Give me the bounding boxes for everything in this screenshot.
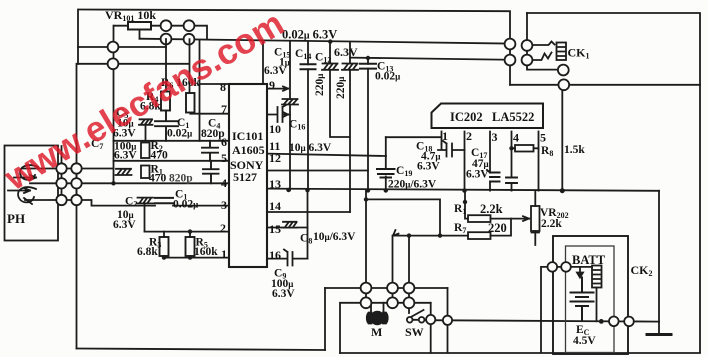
wire vertical x113 pot-left feed [113, 26, 115, 184]
capacitor C15 column / C10 riser x290 [289, 41, 291, 190]
svg-text:A1605: A1605 [232, 143, 265, 157]
resistor R1b [141, 166, 150, 179]
wire x366 column to motor row [365, 191, 367, 303]
svg-text:470: 470 [151, 150, 169, 162]
capacitor C14 plates [301, 64, 316, 69]
svg-text:0.02μ: 0.02μ [173, 199, 198, 211]
svg-text:1: 1 [221, 247, 227, 261]
wire node row y63.8 [78, 63, 189, 65]
wire CK1 node column x527 [527, 13, 563, 70]
wire rail B (VR wiper net) [140, 39, 511, 44]
svg-text:13: 13 [269, 177, 281, 191]
svg-text:M: M [371, 325, 382, 339]
node grid circles [56, 163, 81, 205]
resistor R1 [465, 191, 529, 222]
svg-text:2: 2 [466, 129, 472, 143]
capacitor pin4 bypass plates [506, 178, 517, 184]
svg-text:SW: SW [405, 325, 424, 339]
svg-text:4: 4 [513, 131, 519, 145]
capacitor C10 hatched symbol [282, 99, 298, 105]
wire pin1 line IC202 [386, 132, 442, 145]
svg-text:1.5k: 1.5k [564, 144, 585, 156]
svg-text:2.2k: 2.2k [480, 202, 503, 216]
svg-text:PH: PH [7, 211, 25, 226]
wire ground drop x659 [658, 191, 660, 334]
svg-text:4.5V: 4.5V [573, 335, 596, 347]
svg-text:6: 6 [221, 135, 227, 149]
wire SW drop x430 [430, 303, 432, 353]
IC202 body [432, 104, 544, 129]
capacitor C13 plates [360, 64, 376, 69]
wire CK1 ring contact hook lower [531, 53, 552, 61]
wire CK1 tip contact hook upper [531, 42, 555, 46]
svg-text:220μ/6.3V: 220μ/6.3V [388, 179, 437, 191]
wire bottom rail left [77, 349, 326, 351]
svg-text:8: 8 [220, 80, 226, 94]
svg-text:6.3V: 6.3V [272, 288, 295, 300]
resistor R2 [141, 143, 150, 159]
capacitor C4 plates [202, 141, 218, 161]
svg-text:6.3V: 6.3V [113, 219, 136, 231]
svg-text:C2: C2 [125, 196, 137, 209]
svg-text:0.02μ 6.3V: 0.02μ 6.3V [282, 28, 337, 42]
svg-text:10μ/6.3V: 10μ/6.3V [313, 231, 356, 243]
wire 100u box mid line pin5 [114, 160, 230, 162]
node CK1 circles [505, 39, 570, 91]
capacitor C1low plates [155, 198, 173, 203]
capacitor C3 hatched symbol [139, 119, 153, 141]
svg-text:14: 14 [269, 199, 281, 213]
capacitor C1 plates [155, 111, 178, 141]
node VR net circles [108, 20, 195, 69]
capacitor C11 column [349, 42, 351, 212]
jack CK1 body [557, 43, 567, 61]
wire pin9 lead with arrow [267, 86, 288, 90]
resistor R4 [161, 92, 170, 111]
wire rail C [350, 58, 510, 60]
svg-text:220: 220 [488, 221, 507, 235]
svg-text:5: 5 [221, 151, 227, 165]
svg-text:820p: 820p [169, 173, 193, 185]
svg-text:1: 1 [442, 129, 448, 143]
svg-text:5127: 5127 [233, 170, 257, 184]
battery inner box [566, 246, 615, 353]
svg-text:220μ: 220μ [335, 77, 347, 99]
jack PH box [5, 146, 59, 241]
svg-text:0.02μ: 0.02μ [375, 71, 400, 83]
wire R4 top lead [165, 39, 167, 92]
svg-text:6.3V: 6.3V [466, 169, 489, 181]
capacitor C19 column [385, 137, 387, 190]
wire node row y47 [78, 46, 166, 48]
svg-text:C12: C12 [315, 52, 331, 65]
wire top rail A [79, 10, 510, 41]
wire battery feed y266.9 [541, 267, 592, 353]
capacitor C14 column [307, 41, 309, 190]
battery plus contact arrow [577, 267, 583, 278]
svg-text:10μ 6.3V: 10μ 6.3V [289, 142, 332, 154]
svg-text:6.3V: 6.3V [417, 161, 440, 173]
svg-text:7: 7 [221, 102, 227, 116]
capacitor C13 column [367, 58, 369, 190]
wire bottom rail right [340, 352, 700, 354]
capacitor C20 symbol [487, 170, 500, 182]
wire lower mid vertical x325 [324, 288, 326, 350]
watermark www.elecfans.com [0, 3, 291, 199]
svg-text:6.3V: 6.3V [114, 150, 137, 162]
svg-text:10: 10 [269, 122, 281, 136]
capacitor C5 plates [203, 161, 219, 184]
capacitor C18 series [438, 141, 465, 157]
svg-text:2.2k: 2.2k [541, 218, 562, 230]
node battery circles [548, 262, 634, 326]
resistor R7 [393, 219, 511, 239]
wire pin2 column IC202 [464, 132, 466, 191]
svg-text:CK1: CK1 [568, 46, 590, 61]
svg-text:15: 15 [269, 222, 281, 236]
wire motor branch x392 [392, 236, 394, 303]
wire pin12 line [267, 170, 368, 172]
svg-text:C19: C19 [396, 165, 412, 178]
IC101 body [229, 84, 267, 267]
svg-text:16: 16 [269, 248, 281, 262]
svg-text:470: 470 [149, 173, 167, 185]
resistor R5 [186, 232, 195, 258]
svg-text:R7: R7 [454, 222, 466, 235]
svg-text:220μ: 220μ [314, 74, 326, 96]
wire pin2 line [145, 231, 230, 233]
svg-text:C8: C8 [300, 233, 312, 246]
capacitor C16 in pin10 lead [267, 105, 290, 122]
wire pin15 riser x307 [307, 191, 309, 259]
svg-text:6.3V: 6.3V [334, 45, 358, 59]
wire lower box row y302.8 [340, 303, 431, 353]
wire lower mid row y288 [325, 287, 448, 289]
battery Ec cells [571, 278, 594, 322]
svg-text:12: 12 [269, 151, 281, 165]
switch SW [409, 310, 424, 320]
wire pin5 column IC202 [538, 132, 540, 191]
svg-text:R8: R8 [541, 145, 553, 158]
jack BATT contact [592, 266, 602, 322]
capacitor C7 hatched symbol [116, 169, 132, 175]
svg-text:6.3V: 6.3V [264, 65, 287, 77]
wire switch branch x409 [408, 236, 410, 313]
capacitor C11 hatched symbol [342, 64, 358, 70]
wire C15 left riser [262, 41, 264, 84]
motor M leads [371, 303, 384, 312]
potentiometer VR202 [531, 191, 540, 245]
wire R6 top lead [189, 39, 191, 93]
wire CK1 sleeve vertical x562 [561, 85, 563, 191]
jack PH plug contacts [14, 165, 38, 180]
wire pin14 line [267, 211, 350, 213]
svg-text:4: 4 [221, 176, 227, 190]
svg-text:CK2: CK2 [631, 263, 653, 278]
potentiometer VR101 [114, 22, 207, 39]
svg-text:IC101: IC101 [232, 129, 263, 143]
wire battery feed row y320 [424, 320, 659, 321]
node circles lower grid [361, 283, 453, 325]
resistor R8 [512, 145, 539, 152]
wire node grid columns [62, 146, 77, 205]
wire CK1 lower rail y84.8 [510, 84, 700, 86]
svg-text:0.02μ: 0.02μ [167, 128, 192, 140]
svg-text:C16: C16 [289, 119, 305, 132]
svg-text:3: 3 [492, 130, 498, 144]
wire node grid rows [22, 169, 229, 206]
resistor R3 [160, 232, 169, 258]
capacitor C8 hatched at pin15 [267, 222, 308, 228]
svg-text:5: 5 [540, 131, 546, 145]
wire left vertical rail from VR box [77, 10, 79, 349]
wire 100u box top line pin6 [114, 140, 230, 142]
wire pin8 riser [200, 40, 230, 141]
wire x447 drop [447, 288, 449, 353]
svg-text:3: 3 [221, 198, 227, 212]
wire pin11 line [267, 154, 386, 156]
capacitor C9 at pin16 [267, 250, 308, 266]
capacitor C12 hatched symbol [322, 64, 338, 70]
svg-text:BATT: BATT [572, 253, 606, 267]
wire main ground rail y190 [267, 189, 659, 191]
capacitor C2 hatched symbol with drop [137, 198, 154, 232]
svg-text:6.8k: 6.8k [137, 246, 158, 258]
wire top rail A2 right [527, 13, 700, 352]
wire branch x440 [367, 199, 441, 235]
wire pin1 line [163, 257, 229, 259]
svg-text:9: 9 [269, 78, 275, 92]
svg-text:2: 2 [220, 221, 226, 235]
ground symbol [647, 333, 671, 336]
jack CK2 outer box [553, 236, 628, 354]
motor M symbol [367, 312, 388, 325]
resistor R6 [186, 93, 229, 114]
capacitor C12 column [330, 42, 349, 138]
capacitor C20 column pin3 [489, 132, 491, 191]
svg-text:160k: 160k [194, 246, 218, 258]
wire CK1 node column x510 [509, 40, 511, 85]
wire pin4 column IC202 [511, 132, 513, 191]
capacitor C19 plates [377, 169, 395, 178]
svg-text:IC202 LA5522: IC202 LA5522 [450, 110, 534, 124]
